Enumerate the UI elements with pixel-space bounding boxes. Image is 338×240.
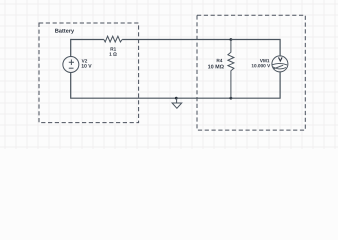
label V2 <box>82 59 88 62</box>
wire V2 bottom to ground node <box>71 73 177 99</box>
resistor R4 <box>228 40 234 99</box>
ground <box>172 97 182 109</box>
junction node B <box>230 97 233 100</box>
label R1 <box>111 47 117 50</box>
enclosure box Battery <box>39 23 139 123</box>
value 10 V <box>82 64 92 68</box>
voltage source V2 <box>63 57 79 73</box>
wire R1 to node A <box>122 39 231 41</box>
label Battery <box>55 29 74 34</box>
value 10 MOhm <box>208 65 224 69</box>
voltmeter VM1 <box>272 56 288 72</box>
junction node A <box>230 38 233 41</box>
wire node A to VM1 top <box>231 40 280 56</box>
wire node B to VM1 bottom <box>231 72 280 98</box>
resistor R1 <box>104 36 122 42</box>
wire ground node to node B <box>177 97 231 99</box>
enclosure box right <box>197 15 305 130</box>
label R4 <box>217 59 223 62</box>
value 10.000 V <box>252 64 270 67</box>
value 1 Ohm <box>109 52 116 55</box>
label VM1 <box>260 59 270 62</box>
wire V2 top to R1 <box>71 40 104 57</box>
